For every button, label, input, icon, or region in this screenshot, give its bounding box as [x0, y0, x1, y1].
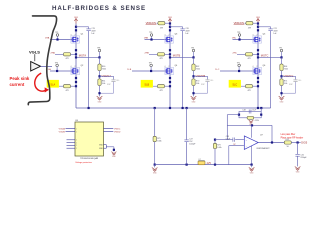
svg-text:Low pass filter: Low pass filter — [281, 133, 296, 136]
svg-text:TP7: TP7 — [149, 63, 152, 65]
svg-text:Peak sink: Peak sink — [10, 76, 30, 81]
svg-text:VGDC: VGDC — [114, 129, 121, 131]
svg-text:5.56k: 5.56k — [157, 141, 161, 143]
svg-text:DIO5: DIO5 — [301, 141, 308, 145]
svg-text:C40: C40 — [298, 80, 301, 82]
svg-text:Voltage protection: Voltage protection — [75, 161, 92, 164]
svg-text:750k: 750k — [196, 68, 200, 70]
svg-text:SLC: SLC — [232, 84, 237, 87]
svg-text:1LB: 1LB — [127, 69, 131, 71]
svg-text:VBUS: VBUS — [74, 17, 78, 19]
svg-text:VBUS: VBUS — [168, 17, 172, 19]
svg-text:VGDA: VGDA — [59, 128, 66, 131]
svg-text:TP5: TP5 — [55, 32, 58, 34]
svg-text:2HA: 2HA — [51, 52, 56, 55]
svg-text:2200pF: 2200pF — [300, 157, 307, 159]
svg-text:MOTA: MOTA — [79, 54, 87, 58]
svg-text:OPA2376AIDBVT: OPA2376AIDBVT — [256, 147, 269, 150]
svg-text:SLA: SLA — [50, 84, 55, 87]
svg-text:D7: D7 — [199, 159, 201, 161]
svg-text:SLB: SLB — [144, 84, 149, 87]
svg-text:1LC: 1LC — [215, 69, 219, 71]
svg-text:C40: C40 — [210, 80, 213, 82]
svg-text:C48: C48 — [242, 109, 245, 111]
svg-text:TP2: TP2 — [237, 63, 240, 65]
svg-text:VGDD: VGDD — [114, 131, 121, 133]
svg-text:2HC: 2HC — [233, 53, 238, 55]
svg-text:TP6: TP6 — [55, 63, 58, 65]
svg-text:TP1: TP1 — [279, 48, 282, 50]
svg-text:VGLS: VGLS — [29, 49, 40, 54]
svg-text:TP9: TP9 — [149, 32, 152, 34]
svg-text:TPD4E05U06DQAR: TPD4E05U06DQAR — [80, 157, 99, 160]
svg-text:1.00k: 1.00k — [217, 147, 221, 149]
svg-text:C40: C40 — [116, 80, 119, 82]
svg-text:5.6k: 5.6k — [102, 83, 105, 85]
svg-text:4.99k: 4.99k — [255, 120, 259, 122]
svg-text:current: current — [10, 82, 25, 87]
svg-text:56: 56 — [287, 146, 289, 148]
svg-text:HALF-BRIDGES & SENSE: HALF-BRIDGES & SENSE — [52, 5, 146, 12]
svg-text:750k: 750k — [102, 68, 106, 70]
svg-text:2HB: 2HB — [145, 53, 150, 55]
svg-text:TP4: TP4 — [191, 48, 194, 50]
svg-text:MOTC: MOTC — [261, 54, 269, 58]
svg-text:5.6k: 5.6k — [284, 83, 287, 85]
svg-text:MOTB: MOTB — [173, 54, 181, 58]
svg-text:750k: 750k — [284, 68, 288, 70]
svg-text:TP3: TP3 — [237, 32, 240, 34]
svg-text:VGDB: VGDB — [59, 131, 66, 133]
svg-text:2V5: 2V5 — [207, 162, 212, 165]
svg-text:Place near RP header: Place near RP header — [281, 137, 304, 140]
svg-text:VBUS: VBUS — [256, 17, 260, 19]
svg-text:5.6k: 5.6k — [196, 83, 199, 85]
svg-text:1HA: 1HA — [45, 37, 50, 40]
svg-text:TP8: TP8 — [97, 48, 100, 50]
svg-text:1000pF: 1000pF — [189, 144, 196, 146]
